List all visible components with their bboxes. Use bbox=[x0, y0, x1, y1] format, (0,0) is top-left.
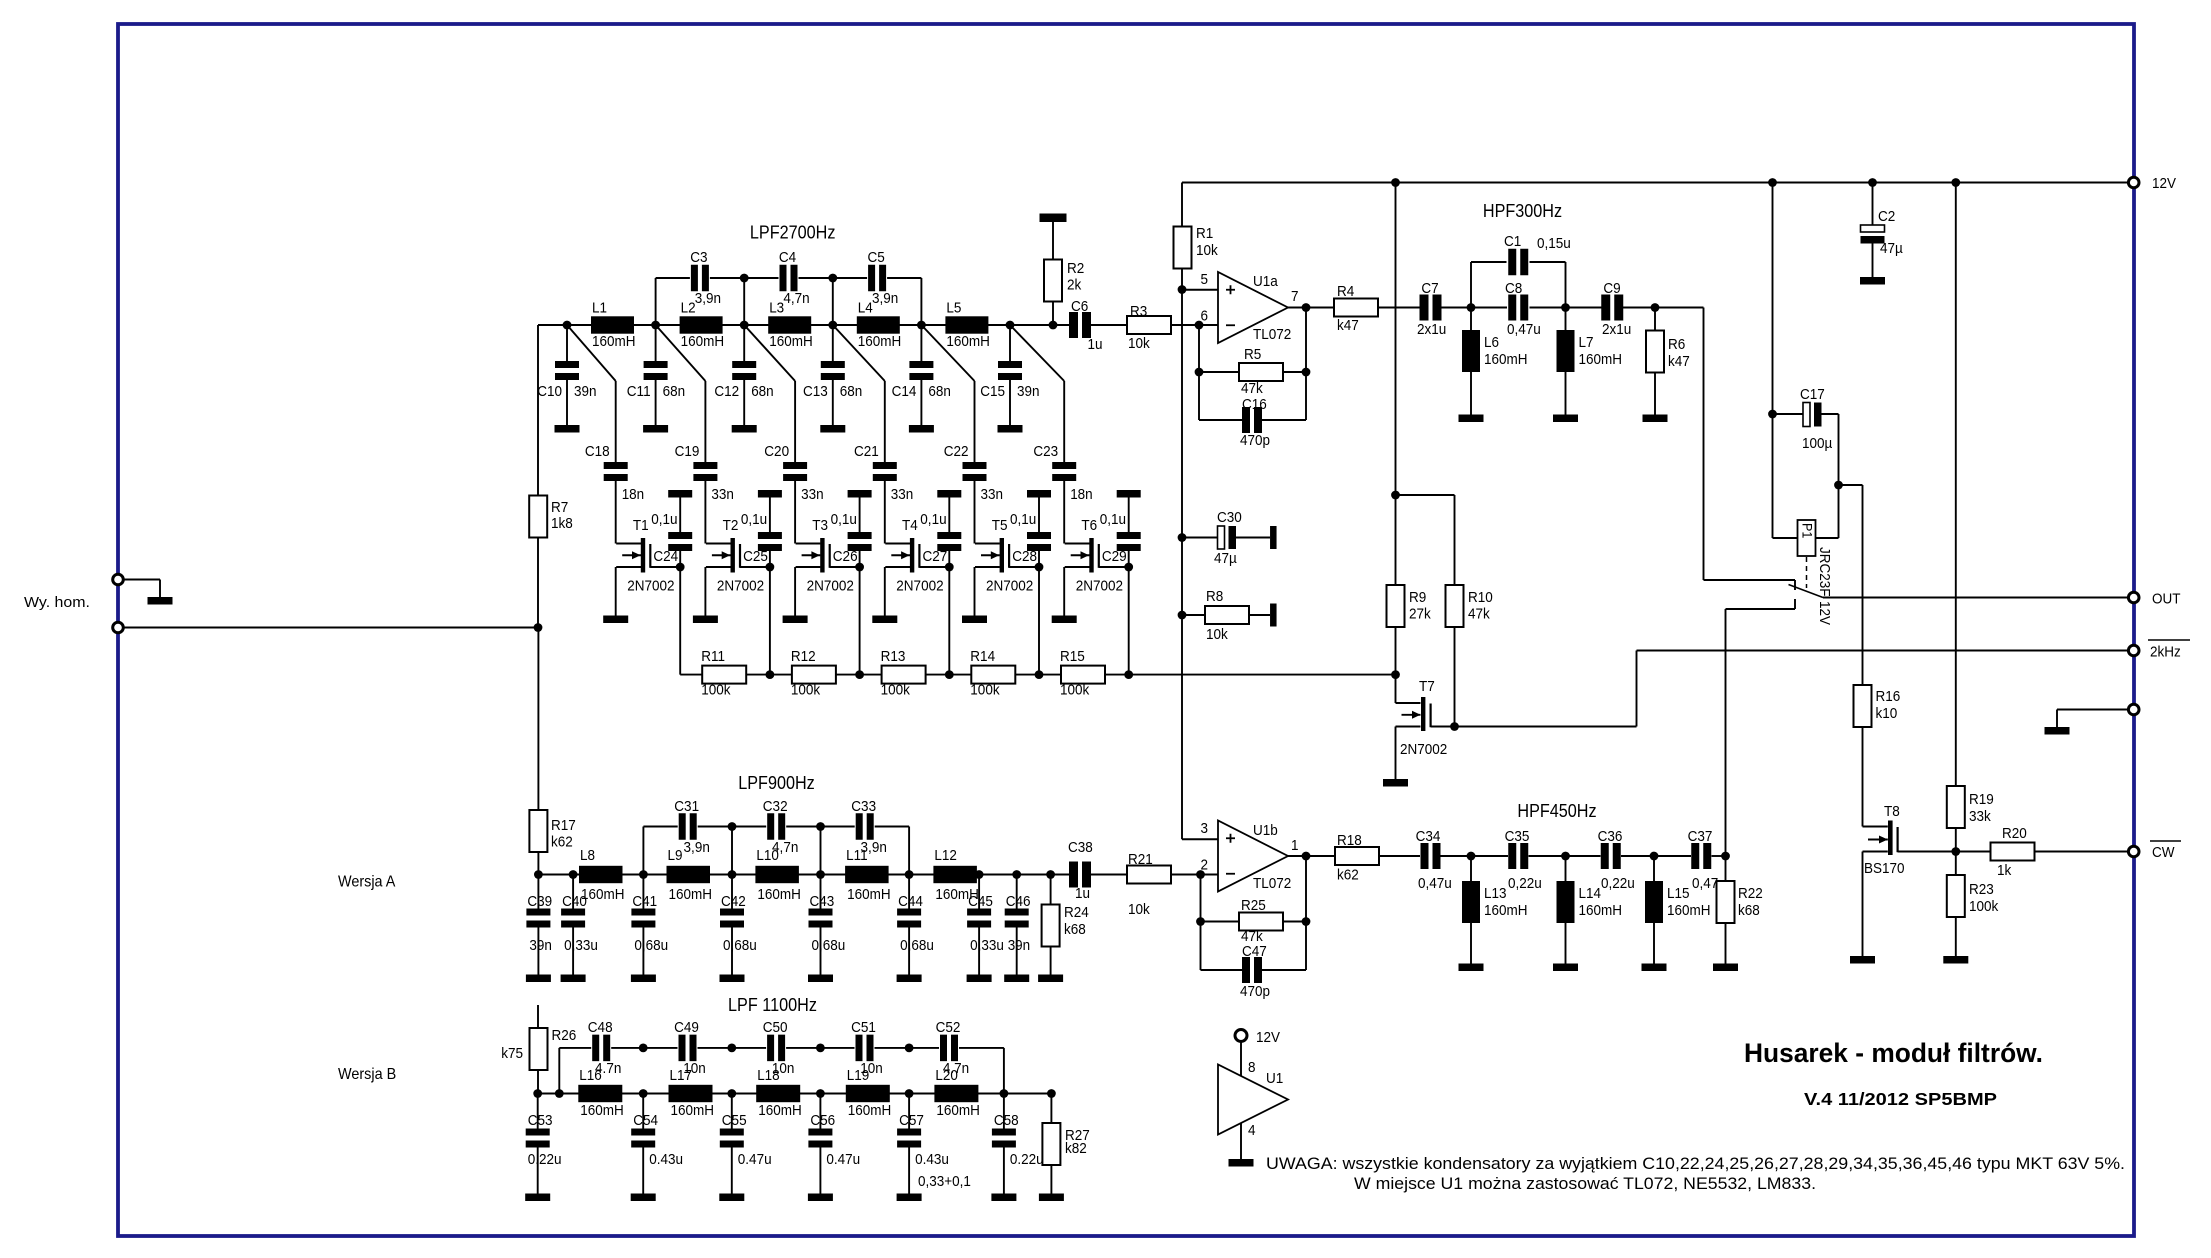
capacitor C21 bbox=[873, 462, 897, 469]
svg-text:10n: 10n bbox=[683, 1060, 706, 1077]
ground under C2 bbox=[1860, 277, 1885, 285]
svg-text:C36: C36 bbox=[1598, 828, 1623, 845]
svg-text:k62: k62 bbox=[551, 834, 573, 851]
capacitor C1 bridge bbox=[1470, 262, 1472, 308]
capacitor C17 bbox=[1773, 413, 1804, 415]
svg-text:JRC23F: JRC23F bbox=[1816, 547, 1833, 597]
svg-text:R9: R9 bbox=[1409, 589, 1426, 606]
node C24 bbox=[676, 563, 685, 572]
svg-text:18n: 18n bbox=[1070, 486, 1093, 503]
svg-text:R24: R24 bbox=[1064, 904, 1089, 921]
wire 12V bus to R19 bbox=[1955, 183, 1957, 787]
capacitor C13 bbox=[832, 325, 834, 361]
svg-text:3,9n: 3,9n bbox=[684, 839, 710, 856]
op-amp U1 power bbox=[1240, 1042, 1242, 1077]
capacitor C53 bbox=[537, 1094, 539, 1129]
capacitor C3 bbox=[691, 265, 698, 292]
transistor T5 2N7002 bbox=[1000, 538, 1004, 573]
ground under C54 bbox=[631, 1194, 656, 1202]
svg-text:12V: 12V bbox=[1256, 1029, 1280, 1046]
svg-text:R7: R7 bbox=[551, 499, 568, 516]
svg-text:0,33u: 0,33u bbox=[564, 937, 598, 954]
capacitor C43 bbox=[820, 875, 822, 909]
svg-text:3,9n: 3,9n bbox=[861, 839, 887, 856]
relay coil P1 JRC23F bbox=[1772, 414, 1774, 538]
svg-text:C14: C14 bbox=[892, 383, 917, 400]
capacitor C47 bbox=[1200, 922, 1202, 971]
ground under C39 bbox=[526, 975, 551, 983]
ground under C41 bbox=[631, 975, 656, 983]
svg-text:HPF300Hz: HPF300Hz bbox=[1483, 201, 1562, 221]
svg-text:C30: C30 bbox=[1217, 509, 1242, 526]
ground under R22 bbox=[1713, 964, 1738, 972]
ground under T2 bbox=[693, 616, 718, 624]
svg-text:12V: 12V bbox=[2152, 175, 2176, 192]
svg-text:3,9n: 3,9n bbox=[872, 290, 898, 307]
resistor R1 bbox=[1181, 183, 1183, 227]
ground under C42 bbox=[720, 975, 745, 983]
svg-text:0,1u: 0,1u bbox=[831, 511, 857, 528]
wire C24 node down bbox=[679, 567, 681, 675]
svg-text:0,1u: 0,1u bbox=[920, 511, 946, 528]
inductor L12 bbox=[933, 866, 977, 883]
svg-text:HPF450Hz: HPF450Hz bbox=[1517, 801, 1596, 821]
svg-text:2N7002: 2N7002 bbox=[896, 578, 943, 595]
resistor R6 bbox=[1654, 308, 1656, 331]
svg-text:C2: C2 bbox=[1878, 208, 1895, 225]
svg-text:0,1u: 0,1u bbox=[1100, 511, 1126, 528]
wire 2kHz line bbox=[1455, 726, 1637, 728]
svg-text:2N7002: 2N7002 bbox=[807, 578, 854, 595]
svg-text:160mH: 160mH bbox=[592, 333, 636, 350]
svg-text:C46: C46 bbox=[1006, 893, 1031, 910]
svg-text:68n: 68n bbox=[928, 383, 951, 400]
svg-text:33n: 33n bbox=[981, 486, 1004, 503]
svg-text:L14: L14 bbox=[1579, 885, 1602, 902]
wire diagonal node2 to C20 bbox=[744, 325, 795, 381]
node T8 gate bbox=[1951, 847, 1960, 856]
ground under T7 bbox=[1383, 779, 1408, 787]
svg-text:160mH: 160mH bbox=[1579, 902, 1623, 919]
ground under T5 bbox=[962, 616, 987, 624]
wire LPF900 rail bbox=[538, 874, 1069, 876]
svg-text:T8: T8 bbox=[1884, 803, 1900, 820]
ground under L7 bbox=[1553, 415, 1578, 423]
svg-text:0.22u: 0.22u bbox=[1010, 1151, 1044, 1168]
svg-text:C8: C8 bbox=[1505, 280, 1522, 297]
svg-text:C32: C32 bbox=[763, 798, 788, 815]
svg-text:L5: L5 bbox=[946, 300, 961, 317]
svg-text:68n: 68n bbox=[751, 383, 774, 400]
capacitor C24 bbox=[679, 498, 681, 533]
svg-text:C40: C40 bbox=[562, 893, 587, 910]
inductor L11 bbox=[845, 866, 889, 883]
svg-text:C1: C1 bbox=[1504, 233, 1521, 250]
ground under C57 bbox=[897, 1194, 922, 1202]
svg-text:C15: C15 bbox=[980, 383, 1005, 400]
svg-text:100k: 100k bbox=[881, 682, 911, 699]
wire C20 to T3 bbox=[794, 481, 796, 544]
svg-text:10k: 10k bbox=[1128, 901, 1150, 918]
capacitor C28 bbox=[1038, 498, 1040, 533]
svg-text:C58: C58 bbox=[994, 1112, 1019, 1129]
wire node to R16 column bbox=[1839, 484, 1863, 486]
wire relay actuator dashed bbox=[1806, 557, 1808, 588]
ground under C53 bbox=[525, 1194, 550, 1202]
svg-text:10k: 10k bbox=[1196, 242, 1218, 259]
wire U1 pin4 ground bbox=[1240, 1123, 1242, 1160]
svg-text:1k: 1k bbox=[1997, 862, 2012, 879]
wire C22 to T5 bbox=[974, 481, 976, 544]
transistor T7 2N7002 bbox=[1395, 675, 1397, 703]
transistor T6 2N7002 bbox=[1089, 538, 1093, 573]
svg-text:0,68u: 0,68u bbox=[723, 937, 757, 954]
svg-text:1u: 1u bbox=[1075, 885, 1090, 902]
svg-text:C51: C51 bbox=[851, 1019, 876, 1036]
terminal bar above C25 bbox=[758, 490, 782, 498]
wire T6 source to ground bbox=[1063, 567, 1065, 616]
capacitor C29 bbox=[1128, 498, 1130, 533]
svg-text:L6: L6 bbox=[1484, 334, 1499, 351]
svg-text:27k: 27k bbox=[1409, 606, 1431, 623]
capacitor C11 bbox=[655, 325, 657, 361]
svg-text:2x1u: 2x1u bbox=[1417, 321, 1446, 338]
svg-text:U1: U1 bbox=[1266, 1070, 1283, 1087]
svg-text:160mH: 160mH bbox=[1484, 902, 1528, 919]
svg-text:2N7002: 2N7002 bbox=[1400, 741, 1447, 758]
wire diagonal node3 to C21 bbox=[833, 325, 885, 381]
node 12V terminal bbox=[2128, 177, 2139, 188]
wire T3 source to ground bbox=[794, 567, 796, 616]
svg-text:U1b: U1b bbox=[1253, 822, 1278, 839]
wire C23 to T6 bbox=[1063, 481, 1065, 544]
capacitor C5 bbox=[868, 265, 875, 292]
capacitor C50 bbox=[767, 1035, 774, 1062]
wire T8 source to ground bbox=[1862, 852, 1864, 957]
svg-text:C53: C53 bbox=[528, 1112, 553, 1129]
svg-text:R20: R20 bbox=[2002, 825, 2027, 842]
node bias split bbox=[1391, 491, 1400, 500]
capacitor C8 bbox=[1471, 307, 1507, 309]
svg-text:T6: T6 bbox=[1081, 517, 1097, 534]
node C27 bbox=[945, 563, 954, 572]
ground under C15 bbox=[998, 425, 1023, 433]
terminal bar above C27 bbox=[937, 490, 961, 498]
resistor R12 bbox=[792, 666, 836, 684]
svg-text:33k: 33k bbox=[1969, 808, 1991, 825]
capacitor C37 bbox=[1654, 855, 1691, 857]
svg-text:C43: C43 bbox=[810, 893, 835, 910]
svg-text:0,68u: 0,68u bbox=[812, 937, 846, 954]
svg-text:3: 3 bbox=[1201, 820, 1209, 837]
svg-text:470p: 470p bbox=[1240, 432, 1270, 449]
capacitor C18 bbox=[604, 462, 628, 469]
svg-text:C35: C35 bbox=[1505, 828, 1530, 845]
node C25 bbox=[766, 563, 775, 572]
svg-text:C12: C12 bbox=[714, 383, 739, 400]
terminal bar above R2 bbox=[1040, 214, 1067, 223]
node HPF450 out bbox=[1721, 852, 1730, 861]
inductor L4 bbox=[857, 316, 900, 333]
ground under C55 bbox=[719, 1194, 744, 1202]
wire OUT line bbox=[1823, 597, 2129, 599]
capacitor C20 bbox=[783, 462, 807, 469]
svg-text:4,7n: 4,7n bbox=[772, 839, 798, 856]
svg-text:R2: R2 bbox=[1067, 260, 1084, 277]
terminal bar above C24 bbox=[668, 490, 692, 498]
wire T7 source to ground bbox=[1395, 727, 1397, 780]
node 2kHz terminal bbox=[2128, 645, 2139, 656]
capacitor C45 bbox=[978, 875, 980, 909]
svg-text:R1: R1 bbox=[1196, 225, 1213, 242]
svg-text:4: 4 bbox=[1248, 1122, 1256, 1139]
node U1 12V terminal bbox=[1235, 1030, 1247, 1042]
capacitor C33 bbox=[856, 813, 863, 840]
resistor R26 bbox=[537, 1005, 539, 1028]
resistor R4 bbox=[1334, 299, 1378, 317]
svg-text:T4: T4 bbox=[902, 517, 918, 534]
ground under C46 bbox=[1004, 975, 1029, 983]
capacitor C30 bbox=[1182, 537, 1218, 539]
wire LPF2700 input drop bbox=[537, 325, 539, 495]
svg-text:UWAGA: wszystkie kondensatory: UWAGA: wszystkie kondensatory za wyjątki… bbox=[1266, 1154, 2125, 1173]
inductor L18 bbox=[756, 1085, 800, 1102]
svg-text:C11: C11 bbox=[627, 383, 651, 400]
op-amp U1a TL072 bbox=[1218, 272, 1288, 343]
svg-text:T3: T3 bbox=[812, 517, 828, 534]
ground under C56 bbox=[808, 1194, 833, 1202]
svg-text:C3: C3 bbox=[690, 249, 707, 266]
inductor L19 bbox=[846, 1085, 890, 1102]
svg-text:C9: C9 bbox=[1603, 280, 1620, 297]
svg-text:C52: C52 bbox=[936, 1019, 961, 1036]
svg-text:k10: k10 bbox=[1876, 705, 1898, 722]
resistor R11 bbox=[702, 666, 746, 684]
inductor L9 bbox=[667, 866, 711, 883]
wire diagonal node5 to C23 bbox=[1010, 325, 1064, 381]
svg-text:OUT: OUT bbox=[2152, 591, 2181, 608]
resistor R10 bbox=[1396, 494, 1455, 496]
svg-text:R13: R13 bbox=[881, 648, 906, 665]
wire C17 to P1 right bbox=[1838, 414, 1840, 538]
ground under C58 bbox=[991, 1194, 1016, 1202]
inductor L14 bbox=[1565, 856, 1567, 881]
svg-text:0,33+0,1: 0,33+0,1 bbox=[918, 1173, 971, 1190]
svg-text:LPF 1100Hz: LPF 1100Hz bbox=[728, 995, 817, 1015]
svg-text:2N7002: 2N7002 bbox=[717, 578, 764, 595]
resistor R15 bbox=[1061, 666, 1105, 684]
svg-text:100k: 100k bbox=[701, 682, 731, 699]
capacitor C12 bbox=[743, 325, 745, 361]
svg-text:C47: C47 bbox=[1242, 943, 1267, 960]
capacitor C2 bbox=[1872, 183, 1874, 226]
svg-text:160mH: 160mH bbox=[1484, 351, 1528, 368]
svg-text:L7: L7 bbox=[1579, 334, 1594, 351]
svg-text:k68: k68 bbox=[1064, 921, 1086, 938]
ground under T4 bbox=[872, 616, 897, 624]
svg-text:160mH: 160mH bbox=[1667, 902, 1711, 919]
wire T1 source to ground bbox=[615, 567, 617, 616]
svg-text:C26: C26 bbox=[833, 548, 858, 565]
capacitor C16 bbox=[1198, 372, 1200, 420]
wire 12V drop to C17 bbox=[1772, 183, 1774, 415]
svg-text:33n: 33n bbox=[801, 486, 824, 503]
svg-text:160mH: 160mH bbox=[580, 1102, 624, 1119]
capacitor C31 bbox=[679, 813, 686, 840]
resistor R18 bbox=[1335, 847, 1379, 865]
svg-text:160mH: 160mH bbox=[757, 886, 801, 903]
svg-text:P1: P1 bbox=[1800, 523, 1816, 539]
node Wy. hom. terminal upper bbox=[113, 574, 124, 585]
svg-text:L3: L3 bbox=[769, 300, 784, 317]
ground under C12 bbox=[732, 425, 757, 433]
wire LPF900 bridge bbox=[642, 827, 644, 875]
wire C18 to T1 bbox=[615, 481, 617, 544]
capacitor C42 bbox=[731, 875, 733, 909]
transistor T4 2N7002 bbox=[910, 538, 914, 573]
svg-text:LPF2700Hz: LPF2700Hz bbox=[750, 223, 836, 243]
capacitor C4 bbox=[780, 265, 787, 292]
svg-text:2kHz: 2kHz bbox=[2150, 644, 2181, 661]
svg-text:C18: C18 bbox=[585, 443, 610, 460]
svg-text:160mH: 160mH bbox=[847, 886, 891, 903]
node R8 bbox=[1178, 611, 1187, 620]
inductor L16 bbox=[578, 1085, 622, 1102]
transistor T1 2N7002 bbox=[641, 538, 645, 573]
wire R7 to input bbox=[537, 538, 539, 628]
node HPF450 n3 bbox=[1650, 852, 1659, 861]
ground under C44 bbox=[897, 975, 922, 983]
wire C26 node down bbox=[859, 567, 861, 675]
svg-text:TL072: TL072 bbox=[1253, 326, 1291, 343]
svg-text:1k8: 1k8 bbox=[551, 515, 573, 532]
svg-text:LPF900Hz: LPF900Hz bbox=[738, 773, 815, 793]
svg-text:470p: 470p bbox=[1240, 983, 1270, 1000]
wire LPF1100 bridge bbox=[558, 1048, 560, 1094]
svg-text:T2: T2 bbox=[723, 517, 739, 534]
ground under R23 bbox=[1943, 956, 1968, 964]
node U1b inv input bbox=[1196, 870, 1205, 879]
svg-text:R25: R25 bbox=[1241, 897, 1266, 914]
svg-text:U1a: U1a bbox=[1253, 273, 1278, 290]
svg-text:Husarek - moduł filtrów.: Husarek - moduł filtrów. bbox=[1744, 1038, 2043, 1068]
capacitor C15 bbox=[1009, 325, 1011, 361]
svg-text:R3: R3 bbox=[1130, 303, 1147, 320]
wire C19 to T2 bbox=[704, 481, 706, 544]
wire HPF300 out to relay bbox=[1655, 307, 1704, 309]
svg-text:8: 8 bbox=[1248, 1059, 1256, 1076]
svg-text:R19: R19 bbox=[1969, 791, 1994, 808]
ground under R24 bbox=[1038, 975, 1063, 983]
svg-text:C41: C41 bbox=[632, 893, 657, 910]
ground aux terminal bbox=[2045, 727, 2070, 735]
ground under C14 bbox=[909, 425, 934, 433]
svg-text:R26: R26 bbox=[552, 1027, 577, 1044]
wire T2 source to ground bbox=[704, 567, 706, 616]
svg-text:C45: C45 bbox=[968, 893, 993, 910]
wire LPF2700 rail bbox=[538, 324, 1070, 326]
capacitor C23 bbox=[1052, 462, 1076, 469]
svg-text:2k: 2k bbox=[1067, 277, 1082, 294]
svg-text:R15: R15 bbox=[1060, 648, 1085, 665]
ground under C43 bbox=[808, 975, 833, 983]
relay switch contact bbox=[1726, 608, 1795, 610]
svg-text:100k: 100k bbox=[970, 682, 1000, 699]
node HPF300 n3 bbox=[1651, 303, 1660, 312]
svg-text:39n: 39n bbox=[574, 383, 597, 400]
svg-text:10k: 10k bbox=[1128, 335, 1150, 352]
svg-text:C17: C17 bbox=[1800, 386, 1825, 403]
node T7 out bbox=[1450, 722, 1459, 731]
capacitor C58 bbox=[1003, 1094, 1005, 1129]
svg-text:0,22u: 0,22u bbox=[1508, 875, 1542, 892]
svg-text:L8: L8 bbox=[580, 847, 595, 864]
node chain right bbox=[1124, 670, 1133, 679]
svg-text:0,68u: 0,68u bbox=[634, 937, 668, 954]
svg-text:C39: C39 bbox=[527, 893, 552, 910]
svg-text:Wy. hom.: Wy. hom. bbox=[24, 594, 90, 611]
svg-text:k62: k62 bbox=[1337, 867, 1359, 884]
capacitor C7 bbox=[1420, 295, 1429, 321]
capacitor C44 bbox=[908, 875, 910, 909]
svg-text:33n: 33n bbox=[711, 486, 734, 503]
resistor R25 bbox=[1200, 875, 1202, 922]
svg-text:R23: R23 bbox=[1969, 881, 1994, 898]
svg-text:C38: C38 bbox=[1068, 839, 1093, 856]
svg-text:L12: L12 bbox=[934, 847, 957, 864]
svg-text:0.43u: 0.43u bbox=[649, 1151, 683, 1168]
svg-text:160mH: 160mH bbox=[581, 886, 625, 903]
svg-text:10n: 10n bbox=[772, 1060, 795, 1077]
capacitor C38 bbox=[1069, 862, 1078, 888]
wire chain seg 3 bbox=[949, 674, 971, 676]
svg-text:0.22u: 0.22u bbox=[528, 1151, 562, 1168]
svg-text:47µ: 47µ bbox=[1880, 240, 1903, 257]
ground under T1 bbox=[603, 616, 628, 624]
wire LPF1100 rail bbox=[538, 1093, 1052, 1095]
svg-text:0,47u: 0,47u bbox=[1418, 875, 1452, 892]
wire pin3 from bias bbox=[1182, 838, 1218, 840]
inductor L17 bbox=[669, 1085, 713, 1102]
wire R16 to T8 bbox=[1862, 727, 1864, 827]
inductor L2 bbox=[680, 316, 723, 333]
inductor L1 bbox=[591, 316, 634, 333]
resistor R8 bbox=[1182, 614, 1206, 616]
capacitor C57 bbox=[908, 1094, 910, 1129]
svg-text:L15: L15 bbox=[1667, 885, 1690, 902]
svg-text:C10: C10 bbox=[537, 383, 562, 400]
svg-text:4.7n: 4.7n bbox=[943, 1060, 969, 1077]
svg-text:Wersja B: Wersja B bbox=[338, 1066, 396, 1083]
capacitor C10 bbox=[566, 325, 568, 361]
ground under R6 bbox=[1643, 415, 1668, 423]
resistor R5 bbox=[1198, 325, 1200, 372]
svg-text:R21: R21 bbox=[1128, 851, 1153, 868]
svg-text:0.47u: 0.47u bbox=[826, 1151, 860, 1168]
inductor L5 bbox=[945, 316, 988, 333]
capacitor C49 bbox=[679, 1035, 686, 1062]
svg-text:T1: T1 bbox=[633, 517, 649, 534]
svg-text:39n: 39n bbox=[529, 937, 552, 954]
svg-text:68n: 68n bbox=[840, 383, 863, 400]
svg-text:160mH: 160mH bbox=[769, 333, 813, 350]
svg-text:R22: R22 bbox=[1738, 885, 1763, 902]
node OUT terminal bbox=[2128, 592, 2139, 603]
svg-text:R6: R6 bbox=[1668, 336, 1685, 353]
capacitor C14 bbox=[920, 325, 922, 361]
capacitor C34 bbox=[1421, 843, 1429, 869]
ground under U1 bbox=[1229, 1159, 1254, 1167]
